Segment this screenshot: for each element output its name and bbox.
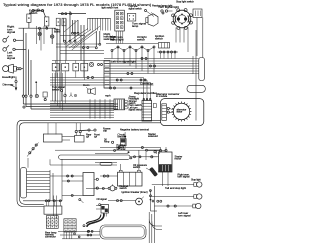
svg-text:cyl: cyl <box>94 136 97 139</box>
svg-text:clip: clip <box>103 129 107 133</box>
svg-text:light switch front: light switch front <box>102 6 119 9</box>
svg-text:Ignition breaker (timer): Ignition breaker (timer) <box>122 190 148 194</box>
svg-text:Amp: Amp <box>104 140 110 144</box>
svg-text:solenoid: solenoid <box>148 134 158 138</box>
svg-text:switch: switch <box>137 38 145 42</box>
svg-text:connector: connector <box>45 236 56 239</box>
svg-text:Dimmer: Dimmer <box>3 83 14 87</box>
svg-text:Headlight: Headlight <box>2 75 15 79</box>
svg-text:turn signal: turn signal <box>178 213 191 217</box>
svg-text:cyl: cyl <box>86 136 89 139</box>
svg-text:Regulator-rectifier: Regulator-rectifier <box>134 91 157 95</box>
svg-text:motor: motor <box>175 157 182 161</box>
svg-text:switch: switch <box>120 186 128 190</box>
svg-text:Stop light: Stop light <box>191 179 201 182</box>
svg-text:turn signal: turn signal <box>178 175 190 179</box>
svg-text:lamp: lamp <box>132 24 139 28</box>
svg-text:switch: switch <box>133 165 141 169</box>
svg-text:signal switch: signal switch <box>129 7 143 10</box>
svg-text:signal light: signal light <box>110 38 124 42</box>
svg-text:switch: switch <box>52 87 60 91</box>
svg-text:Left turn signal light: Left turn signal light <box>111 60 136 64</box>
svg-text:Turn signal light: Turn signal light <box>158 5 179 9</box>
svg-text:signal: signal <box>7 56 15 60</box>
svg-text:Tail and stop light: Tail and stop light <box>165 186 186 190</box>
svg-text:Negative battery terminal: Negative battery terminal <box>120 128 149 132</box>
svg-text:signal: signal <box>7 30 15 34</box>
svg-text:Oil signal: Oil signal <box>97 198 108 201</box>
svg-text:in module: in module <box>156 94 168 98</box>
svg-text:Stop light switch: Stop light switch <box>176 0 194 3</box>
svg-text:Horn: Horn <box>83 83 90 87</box>
svg-text:terminal: terminal <box>117 148 126 151</box>
svg-text:mph: mph <box>105 94 111 98</box>
svg-text:switch: switch <box>155 37 163 41</box>
svg-text:signal switch: signal switch <box>129 108 144 111</box>
svg-text:stator: stator <box>177 111 183 114</box>
svg-text:Connector: Connector <box>140 81 153 85</box>
